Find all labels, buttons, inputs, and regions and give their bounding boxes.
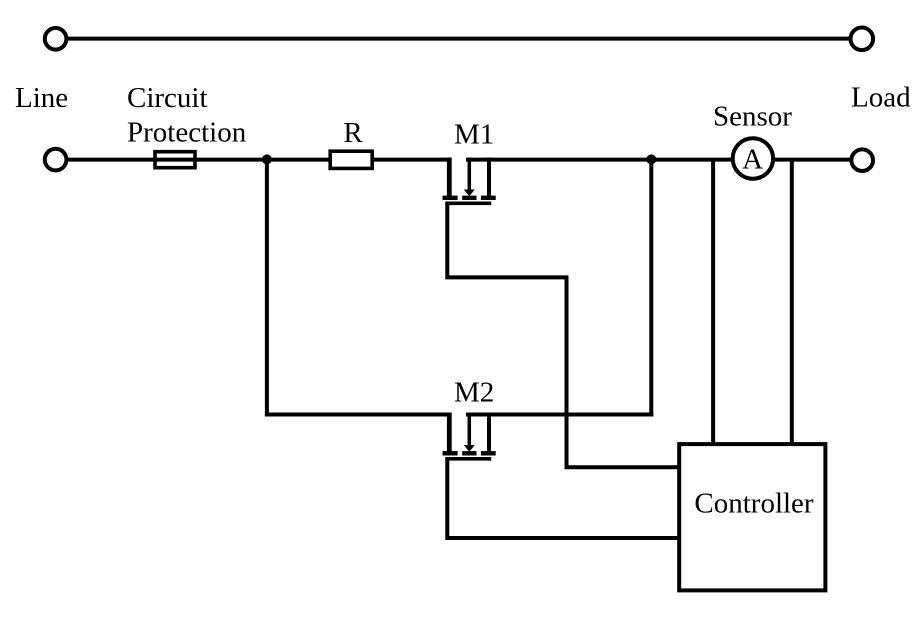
svg-text:Controller: Controller bbox=[694, 487, 814, 519]
resistor R bbox=[330, 151, 372, 168]
wire top rail bbox=[67, 37, 849, 41]
transistor M1 bbox=[443, 158, 496, 204]
node junction dot A (left) bbox=[262, 154, 272, 164]
svg-text:M1: M1 bbox=[454, 119, 494, 151]
wire M2 gate to controller bbox=[447, 459, 679, 538]
svg-text:Circuit: Circuit bbox=[127, 82, 208, 114]
wire sensor tap 2 down to controller bbox=[790, 159, 794, 444]
terminal top-right (Load side) bbox=[851, 28, 874, 51]
wire M2 rail left segment bbox=[265, 413, 452, 417]
wire from node A down to M2 rail bbox=[265, 159, 269, 417]
svg-text:A: A bbox=[742, 143, 763, 175]
terminal Load bbox=[851, 149, 873, 171]
wire from node B down to M2 rail bbox=[649, 159, 653, 417]
node junction dot B (right) bbox=[646, 154, 656, 164]
wire sensor tap 1 down to controller bbox=[711, 159, 715, 444]
svg-text:R: R bbox=[343, 117, 363, 149]
sensor A (ammeter circle) bbox=[733, 138, 773, 178]
wire M2 rail right segment bbox=[466, 413, 653, 417]
svg-text:Load: Load bbox=[851, 82, 911, 114]
controller U1 box bbox=[679, 444, 825, 590]
wire M1 gate to controller bbox=[447, 204, 679, 468]
wire row2 middle segment (M1 source to Sensor) bbox=[466, 158, 733, 162]
terminal Line bbox=[45, 149, 67, 171]
terminal top-left bbox=[45, 28, 67, 50]
wire row2 right segment (Sensor to Load terminal) bbox=[773, 158, 850, 162]
wire row2 left segment (Line terminal to M1 drain) bbox=[67, 158, 452, 162]
fuse F1 (circuit protection) bbox=[155, 152, 195, 168]
svg-text:Sensor: Sensor bbox=[713, 101, 792, 133]
svg-text:Line: Line bbox=[15, 82, 68, 114]
svg-text:M2: M2 bbox=[454, 376, 494, 408]
transistor M2 bbox=[443, 413, 496, 459]
svg-text:Protection: Protection bbox=[127, 117, 247, 149]
